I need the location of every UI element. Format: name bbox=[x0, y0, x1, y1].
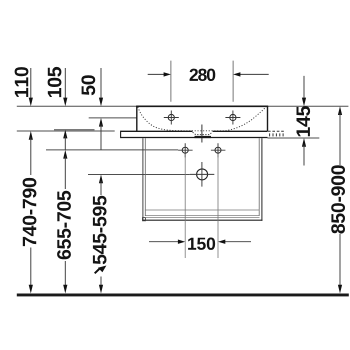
105 reference line bbox=[54, 129, 95, 131]
washbasin right edge bbox=[267, 106, 269, 131]
dim 50 arrow shaft bbox=[100, 68, 102, 100]
dim 655-705 upper arrow bbox=[63, 130, 67, 139]
dim 150 right extension line bbox=[217, 154, 219, 258]
rim reference line right bbox=[268, 105, 349, 107]
dim label 145 bbox=[297, 106, 311, 136]
dim 740-790 upper arrow bbox=[29, 131, 33, 140]
dim 280 right arrow bbox=[240, 73, 269, 75]
metal console frame outer left bbox=[142, 138, 144, 221]
dim label 150 bbox=[188, 238, 215, 250]
console dashed extension top bbox=[268, 130, 285, 132]
console board top left segment bbox=[121, 130, 193, 132]
dim 105 arrow shaft bbox=[64, 68, 66, 100]
inner bowl dashed contour left bbox=[138, 107, 266, 131]
metal console frame outer bottom bbox=[143, 219, 263, 221]
dim 150 left arrow bbox=[149, 241, 178, 243]
dim label 280 bbox=[190, 69, 216, 81]
drain centerline bbox=[201, 125, 203, 143]
dim 150 left extension line bbox=[184, 154, 186, 258]
dim 545-595 lower shaft bbox=[100, 277, 102, 289]
bowl depth line (50) bbox=[89, 117, 137, 119]
110 reference line bbox=[17, 130, 115, 132]
supply height line (655-705) bbox=[46, 149, 178, 151]
dim 850-900 upper arrow bbox=[338, 106, 342, 115]
floor line bbox=[17, 294, 349, 297]
faucet hole right crosshair bbox=[225, 111, 240, 125]
washbasin rim top bbox=[136, 105, 268, 107]
supply connection right crosshair bbox=[211, 143, 226, 157]
dim label 50 bbox=[81, 75, 95, 95]
faucet hole right circle bbox=[230, 114, 236, 120]
drain flange dark bar bbox=[195, 136, 212, 138]
dim 850-900 lower shaft bbox=[339, 234, 341, 288]
dim 280 left arrow bbox=[148, 73, 164, 75]
dim 655-705 second arrow bbox=[63, 150, 67, 159]
faucet hole left crosshair bbox=[164, 111, 179, 125]
console board bottom bbox=[121, 137, 268, 139]
dim 280 right extension line bbox=[232, 61, 234, 102]
metal console frame outer right bbox=[261, 138, 263, 221]
frame inner right line bbox=[258, 138, 260, 216]
console board top right segment bbox=[213, 130, 268, 132]
dim label 545-595 bbox=[93, 196, 107, 265]
drain height line (545-595) bbox=[88, 174, 190, 176]
frame inner bottom line 3 bbox=[145, 217, 260, 219]
dim label 850-900 bbox=[331, 165, 345, 233]
drain connection circle bbox=[197, 169, 208, 180]
drain connection crosshair bbox=[190, 162, 215, 187]
rim reference line left bbox=[17, 105, 137, 107]
dim 280 left extension line bbox=[170, 61, 172, 102]
dim 110 arrow shaft bbox=[30, 68, 32, 100]
dim 145 upper shaft bbox=[303, 76, 305, 100]
drain recess dashed trapezoid bbox=[193, 132, 213, 134]
dim 50 lower arrow bbox=[99, 118, 103, 127]
frame inner bottom line 1 bbox=[145, 209, 260, 211]
dim label 740-790 bbox=[23, 178, 37, 246]
console bottom extension line right bbox=[268, 137, 320, 139]
frame corner square left bbox=[143, 218, 146, 221]
supply connection left crosshair bbox=[178, 143, 193, 157]
dim 145 lower arrow bbox=[302, 138, 306, 147]
faucet hole left circle bbox=[168, 114, 174, 120]
frame inner left line bbox=[144, 138, 146, 216]
adjustability arrow diagonal bbox=[95, 269, 100, 274]
dim label 655-705 bbox=[57, 191, 71, 259]
supply connection left circle bbox=[182, 147, 188, 153]
dim 740-790 lower shaft bbox=[30, 248, 32, 289]
dim 150 right arrow bbox=[225, 241, 251, 243]
dim 655-705 lower shaft bbox=[64, 261, 66, 288]
frame inner bottom line 2 bbox=[145, 215, 260, 217]
console dashed extension hatch bbox=[270, 133, 284, 136]
dim label 105 bbox=[48, 67, 62, 97]
dim label 110 bbox=[15, 67, 29, 97]
dim 545-595 upper arrow bbox=[99, 175, 103, 184]
console board left cap bbox=[120, 131, 122, 138]
supply connection right circle bbox=[215, 147, 221, 153]
washbasin left edge bbox=[136, 106, 138, 131]
